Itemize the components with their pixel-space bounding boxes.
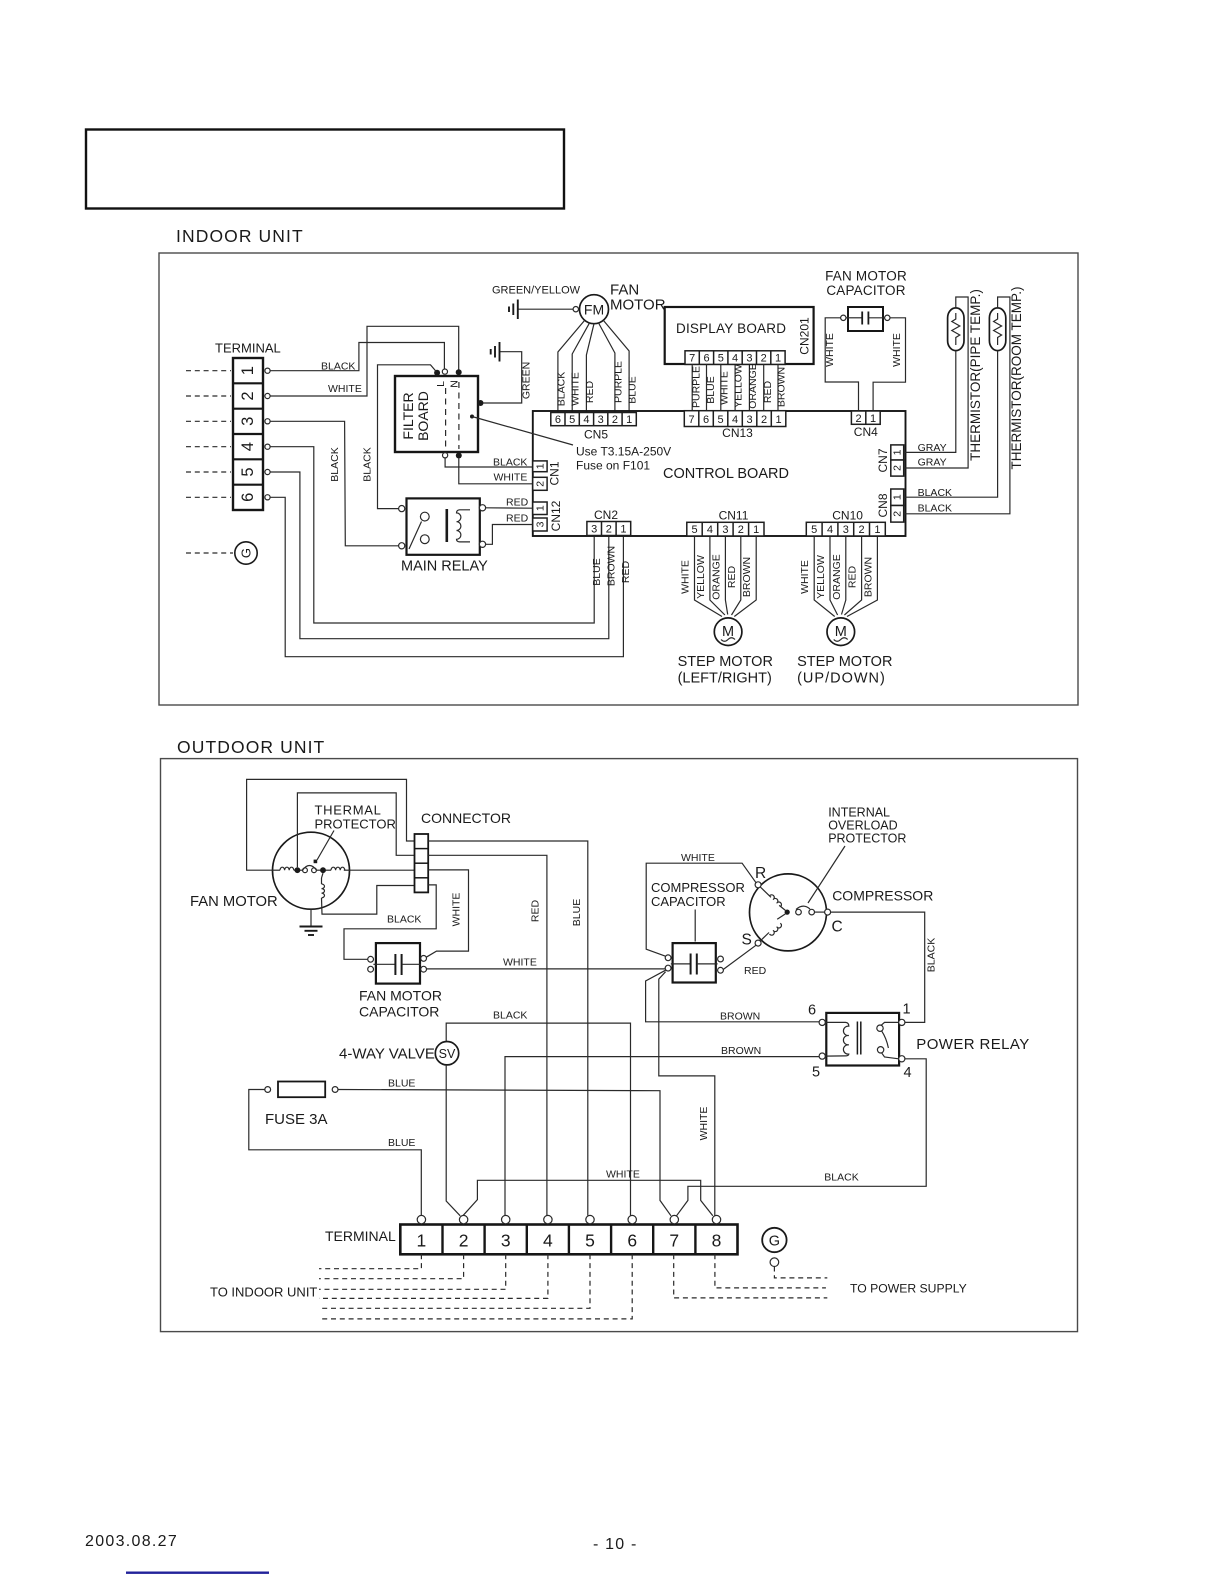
svg-text:ORANGE: ORANGE [747,363,759,409]
connector CN12 [533,500,563,531]
svg-text:BLUE: BLUE [388,1078,415,1090]
svg-text:RED: RED [584,380,596,403]
fan cap pins [368,956,374,962]
outdoor terminal pin circles [417,1215,721,1223]
svg-text:N: N [449,380,461,388]
svg-text:CONNECTOR: CONNECTOR [421,810,511,826]
wire main relay to CN12 pin1 RED [486,507,533,509]
svg-text:4: 4 [543,1231,553,1251]
svg-text:1: 1 [892,494,904,500]
svg-text:2: 2 [738,524,744,536]
outdoor terminal block [400,1225,737,1255]
wire FM to ground (green/yellow) [519,308,574,310]
FM fanout wire to CN5 pin1 BLUE [604,321,630,413]
svg-text:RED: RED [620,560,632,583]
svg-text:THERMISTOR(PIPE TEMP.): THERMISTOR(PIPE TEMP.) [968,289,983,461]
compressor terminal pins R S C [755,882,761,888]
dashed bus to indoor unit [319,1254,632,1319]
svg-text:2: 2 [459,1231,469,1251]
wire filter bottom dot pin WHITE to CN1 pin2 [459,459,533,484]
svg-text:5: 5 [569,414,575,426]
svg-text:4: 4 [732,353,738,365]
wire fan motor inner loop to connector cell2 [297,793,414,867]
compressor internals [760,887,825,941]
svg-text:WHITE: WHITE [698,1107,710,1141]
svg-text:4: 4 [904,1065,912,1081]
wire fan motor main to connector cell3 [350,869,415,871]
svg-text:FAN MOTOR: FAN MOTOR [359,988,442,1004]
svg-text:FAN MOTOR: FAN MOTOR [825,269,907,284]
FM fanout wire to CN5 pin6 BLACK [558,321,585,413]
ground terminal G (outdoor) [762,1228,786,1252]
svg-text:WHITE: WHITE [891,333,903,367]
wire terminal1 BLACK to filter board [270,343,444,371]
wire connector cell4 BLACK to fan cap left-top [344,885,436,959]
svg-text:PROTECTOR: PROTECTOR [828,832,906,846]
svg-text:BLUE: BLUE [388,1137,415,1149]
svg-text:TO INDOOR UNIT: TO INDOOR UNIT [210,1285,317,1300]
svg-text:WHITE: WHITE [606,1169,640,1181]
wire CN12 pin3 to main relay RED [486,525,533,545]
svg-text:WHITE: WHITE [719,371,731,405]
capacitor pin circles [841,315,846,320]
svg-text:C: C [832,919,843,936]
svg-text:7: 7 [669,1231,679,1251]
svg-text:1: 1 [417,1231,427,1251]
svg-text:TERMINAL: TERMINAL [325,1228,396,1244]
svg-text:COMPRESSOR: COMPRESSOR [832,888,933,904]
svg-text:6: 6 [808,1003,816,1019]
wire terminal4 BLUE to CN2 pin3 [270,447,594,623]
wire WHITE comp cap down to terminal8 [659,972,715,1216]
CN11 wire labels [680,554,754,600]
wires display board to CN13 [692,364,778,410]
footer blue underline [126,1572,269,1574]
svg-text:3: 3 [747,414,753,426]
wire SV to terminal2 [446,1065,460,1216]
svg-text:CN5: CN5 [584,428,608,442]
svg-text:1: 1 [620,524,626,536]
svg-text:CAPACITOR: CAPACITOR [826,283,905,298]
svg-text:2: 2 [892,465,904,471]
thermistor room temp bulb [989,308,1005,351]
fuse 3A [265,1082,338,1098]
svg-text:BLACK: BLACK [918,487,952,499]
svg-text:8: 8 [712,1231,722,1251]
compressor circle [750,874,827,951]
svg-text:2: 2 [761,353,767,365]
svg-text:WHITE: WHITE [824,333,836,367]
svg-text:FM: FM [584,302,604,318]
svg-text:1: 1 [626,414,632,426]
wire BLACK compressor C to relay pin1 [831,912,925,1022]
thermistor pipe temp bulb [948,308,964,351]
wire BROWN2 terminal3 to relay pin5 [505,1057,819,1216]
FM fanout wire to CN5 pin5 WHITE [572,323,589,412]
connector (outdoor) [415,834,429,892]
svg-text:BLUE: BLUE [591,558,603,585]
svg-text:CN4: CN4 [854,425,878,439]
svg-text:BLACK: BLACK [824,1172,858,1184]
svg-text:5: 5 [811,524,817,536]
svg-text:BLACK: BLACK [918,503,952,515]
outdoor unit enclosure box [161,759,1078,1332]
svg-text:2: 2 [856,413,862,425]
fan motor ground stem and symbol [300,909,323,935]
svg-text:WHITE: WHITE [503,957,537,969]
svg-text:RED: RED [530,899,542,922]
svg-text:BLACK: BLACK [362,447,374,481]
svg-text:G: G [239,548,254,558]
svg-text:ORANGE: ORANGE [831,554,843,600]
svg-text:ORANGE: ORANGE [710,554,722,600]
connector CN8 [876,489,904,522]
svg-text:STEP MOTOR: STEP MOTOR [797,654,892,670]
svg-text:2003.08.27: 2003.08.27 [85,1533,178,1550]
svg-text:3: 3 [535,521,547,527]
svg-text:WHITE: WHITE [799,560,811,594]
CN13 wire labels [691,363,788,409]
leader internal overload protector [808,846,845,903]
filter board top pins [434,370,440,376]
terminal block TB1 (indoor, 6 poles) [233,358,263,510]
svg-text:BROWN: BROWN [741,557,753,597]
main relay [407,498,480,554]
svg-text:CN1: CN1 [548,461,562,485]
wire connector cell2 RED to terminal4 [428,855,547,1215]
svg-text:CAPACITOR: CAPACITOR [359,1004,439,1020]
svg-text:CN13: CN13 [722,426,753,440]
CN11 funnel wires to step motor [695,537,757,617]
leader compressor capacitor [694,910,696,942]
svg-text:5: 5 [718,414,724,426]
svg-text:POWER RELAY: POWER RELAY [916,1036,1029,1053]
svg-text:1: 1 [535,505,547,511]
svg-text:SV: SV [439,1047,456,1061]
fan motor FM (indoor) [580,295,609,324]
svg-text:PURPLE: PURPLE [612,361,624,403]
svg-text:G: G [769,1234,780,1250]
FM fanout wire to CN5 pin2 PURPLE [599,323,615,412]
svg-text:Fuse on F101: Fuse on F101 [576,459,650,473]
svg-text:RED: RED [847,565,859,588]
fan motor circle (outdoor) [273,832,350,909]
svg-text:6: 6 [703,414,709,426]
svg-text:COMPRESSOR: COMPRESSOR [651,880,745,895]
svg-text:BLACK: BLACK [329,447,341,481]
svg-text:BLACK: BLACK [321,361,355,373]
ground terminal G (indoor) [186,542,257,564]
svg-text:(UP/DOWN): (UP/DOWN) [797,671,886,687]
svg-text:2: 2 [612,414,618,426]
svg-text:BROWN: BROWN [776,367,788,407]
wire terminal2 WHITE to filter board N [270,326,459,396]
svg-text:TERMINAL: TERMINAL [215,341,281,356]
svg-text:WHITE: WHITE [681,852,715,864]
svg-text:WHITE: WHITE [451,893,463,927]
svg-text:4: 4 [732,414,738,426]
svg-text:WHITE: WHITE [570,372,582,406]
svg-text:RED: RED [762,380,774,403]
svg-text:BROWN: BROWN [606,546,618,586]
connector CN2 [587,508,631,536]
filter board [395,376,478,452]
svg-text:1: 1 [892,449,904,455]
wire connector cell3 WHITE to fan cap right-top [426,870,468,957]
power relay box [825,1013,899,1066]
dashed stubs left of terminal [186,371,231,498]
wire cap right WHITE to CN4 pin1 [873,318,905,411]
svg-text:BOARD: BOARD [415,391,431,441]
svg-text:CN2: CN2 [594,508,618,522]
filter board bottom pins [443,453,448,458]
svg-text:BLACK: BLACK [556,372,568,406]
svg-text:CAPACITOR: CAPACITOR [651,894,726,909]
display board connector CN201 cells [685,351,785,365]
svg-text:BLACK: BLACK [493,1010,527,1022]
svg-text:2: 2 [892,511,904,517]
svg-text:3: 3 [843,524,849,536]
4-way valve SV circle [435,1042,458,1065]
FM fanout wire to CN5 pin4 RED [586,324,594,412]
wire RED compressor S to comp cap [723,945,756,969]
wire terminal5 BROWN to CN2 pin2 [270,472,609,639]
main relay pins [399,506,405,512]
wire BROWN1 comp cap to relay pin6 [646,970,820,1022]
fan motor capacitor (indoor) [846,307,885,331]
svg-text:RED: RED [744,965,767,977]
wire BLACK 4-way valve [446,1023,630,1215]
svg-text:TO POWER SUPPLY: TO POWER SUPPLY [850,1282,967,1296]
svg-text:INDOOR UNIT: INDOOR UNIT [176,226,304,246]
ground symbol (green/yellow) [509,300,518,320]
fan motor capacitor (outdoor) [373,943,421,984]
svg-text:GREEN: GREEN [521,362,533,399]
svg-text:BLACK: BLACK [926,938,938,972]
svg-text:WHITE: WHITE [328,383,362,395]
svg-text:YELLOW: YELLOW [815,555,827,599]
connector CN4 [851,411,880,439]
svg-text:L: L [435,381,447,387]
wire filter bottom open pin BLACK to CN1 pin1 [445,458,533,467]
connector CN10 [806,509,885,537]
step motor left/right [714,618,742,646]
svg-text:MAIN RELAY: MAIN RELAY [401,559,488,575]
svg-text:CN8: CN8 [876,493,890,517]
svg-text:MOTOR: MOTOR [610,297,666,314]
svg-text:- 10 -: - 10 - [593,1536,638,1553]
svg-text:4: 4 [827,524,833,536]
fuse note leader line and dot [470,415,474,419]
svg-text:5: 5 [239,467,257,476]
svg-text:2: 2 [239,391,257,400]
svg-text:INTERNAL: INTERNAL [828,806,890,820]
svg-text:THERMAL: THERMAL [315,803,382,818]
svg-text:5: 5 [718,353,724,365]
fan motor internal windings [273,860,350,898]
display board [665,307,814,364]
svg-text:5: 5 [585,1231,595,1251]
svg-text:3: 3 [722,524,728,536]
svg-text:R: R [755,865,766,882]
svg-text:CN7: CN7 [876,448,890,472]
svg-text:STEP MOTOR: STEP MOTOR [678,654,773,670]
wire fuse right BLUE to terminal7 [338,1090,671,1216]
svg-text:GRAY: GRAY [918,442,947,454]
svg-text:GRAY: GRAY [918,457,947,469]
svg-text:4: 4 [583,414,589,426]
svg-text:WHITE: WHITE [494,472,528,484]
connector CN7 [876,445,904,476]
svg-text:BLACK: BLACK [387,914,421,926]
svg-text:3: 3 [598,414,604,426]
wire connector cell1 BLUE to terminal5 [428,841,588,1216]
svg-text:THERMISTOR(ROOM TEMP.): THERMISTOR(ROOM TEMP.) [1009,286,1024,469]
svg-text:DISPLAY BOARD: DISPLAY BOARD [676,321,786,336]
svg-text:6: 6 [703,353,709,365]
svg-text:1: 1 [775,353,781,365]
wire long WHITE fan cap to compressor cap [427,968,666,970]
svg-text:RED: RED [506,497,529,509]
leader thermal protector [317,831,334,861]
thermistor pipe wires GRAY [904,351,956,453]
svg-text:1: 1 [903,1002,911,1018]
svg-text:5: 5 [812,1065,820,1081]
dashed terminal7 to power supply [674,1254,828,1298]
svg-text:FAN MOTOR: FAN MOTOR [190,894,278,910]
svg-text:Use T3.15A-250V: Use T3.15A-250V [576,445,671,459]
connector CN1 [533,461,562,490]
wire filter L pin to main relay upper-left (BLACK) [378,365,437,509]
wire WHITE terminal2 to terminal8 [463,1180,713,1216]
svg-text:1: 1 [776,414,782,426]
svg-text:2: 2 [606,524,612,536]
wire terminal3 BLACK to main relay lower-left [270,421,399,546]
CN10 funnel wires to step motor [814,537,877,617]
thermistor room wires BLACK [904,351,998,498]
svg-text:BLACK: BLACK [493,457,527,469]
wire fan motor bottom coil to connector cell4 BLACK [322,886,415,915]
wire WHITE compressor R to comp cap [646,863,756,956]
svg-text:3: 3 [239,417,257,426]
svg-text:FILTER: FILTER [400,392,416,439]
svg-text:1: 1 [753,524,759,536]
svg-text:4: 4 [707,524,713,536]
svg-text:4: 4 [239,442,257,451]
filter board right pin [478,400,484,406]
svg-text:RED: RED [726,565,738,588]
CN10 wire labels [799,554,874,600]
svg-text:BROWN: BROWN [862,557,874,597]
svg-text:S: S [742,932,752,949]
svg-text:CN11: CN11 [719,509,749,523]
svg-text:(LEFT/RIGHT): (LEFT/RIGHT) [678,671,772,687]
svg-text:6: 6 [239,493,257,502]
svg-text:1: 1 [870,413,876,425]
svg-text:BLUE: BLUE [705,376,717,403]
control board outline [533,411,906,536]
svg-text:YELLOW: YELLOW [733,364,745,408]
svg-text:YELLOW: YELLOW [695,555,707,599]
wire filter right pin GREEN to ground [484,352,522,403]
connector CN5 [551,413,637,442]
compressor cap pins [665,955,671,961]
svg-text:CN201: CN201 [798,317,812,355]
power relay pins [819,1019,825,1025]
svg-text:PROTECTOR: PROTECTOR [315,817,396,832]
svg-text:7: 7 [689,414,695,426]
svg-text:BLUE: BLUE [571,899,583,926]
svg-text:BROWN: BROWN [720,1011,760,1023]
svg-text:FUSE 3A: FUSE 3A [265,1111,328,1128]
svg-text:OVERLOAD: OVERLOAD [828,819,897,833]
svg-text:1: 1 [874,524,880,536]
svg-text:1: 1 [535,463,547,469]
ground symbol (green wire) [491,342,500,362]
svg-text:CONTROL BOARD: CONTROL BOARD [663,466,789,482]
svg-text:BROWN: BROWN [721,1045,761,1057]
svg-text:2: 2 [535,481,547,487]
wire terminal6 RED to CN2 pin1 [270,497,623,656]
svg-text:3: 3 [501,1231,511,1251]
svg-text:5: 5 [691,524,697,536]
svg-text:6: 6 [627,1231,637,1251]
wire BLACK relay pin4 to terminal7 [677,1059,927,1216]
compressor capacitor box [671,943,718,982]
svg-text:GREEN/YELLOW: GREEN/YELLOW [492,285,581,297]
svg-text:2: 2 [761,414,767,426]
FM left pin circle [573,307,578,312]
svg-text:CN12: CN12 [549,500,563,531]
svg-text:BLUE: BLUE [627,376,639,403]
title box (empty) [86,130,564,209]
svg-text:1: 1 [239,366,257,375]
svg-text:3: 3 [746,353,752,365]
wire cap left WHITE to CN4 pin2 [825,318,858,411]
svg-text:3: 3 [591,524,597,536]
svg-text:6: 6 [555,414,561,426]
step motor up/down [827,618,855,646]
connector CN13 [684,411,786,440]
connector CN11 [687,509,764,537]
svg-text:7: 7 [689,353,695,365]
svg-text:2: 2 [859,524,865,536]
G pin circle [770,1258,779,1267]
svg-text:RED: RED [506,513,529,525]
svg-text:4-WAY VALVE: 4-WAY VALVE [339,1046,435,1063]
dashed G to power supply [774,1267,827,1278]
wire fuse left BLUE to terminal1 [249,1090,421,1216]
svg-text:OUTDOOR UNIT: OUTDOOR UNIT [177,737,325,757]
svg-text:WHITE: WHITE [680,560,692,594]
terminal pin circles [265,368,270,500]
indoor unit enclosure box [159,253,1078,705]
svg-text:PURPLE: PURPLE [691,366,703,408]
wire fan motor left loop to connector cell1 [247,779,415,870]
svg-text:CN10: CN10 [832,509,863,523]
dashed terminal8 to power supply [715,1254,826,1288]
